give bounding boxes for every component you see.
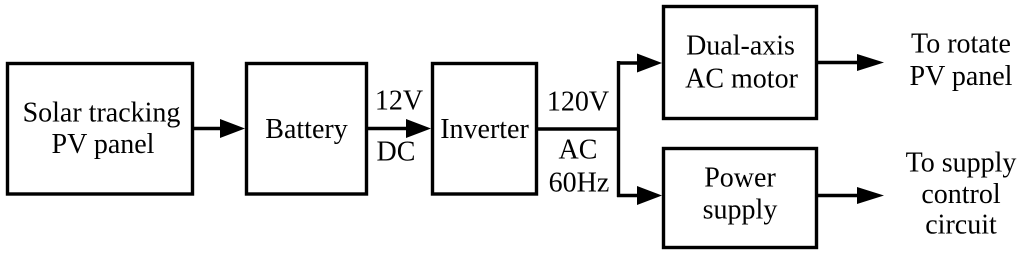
svg-text:Battery: Battery (265, 114, 347, 145)
label: To supply control circuit (906, 148, 1017, 241)
wire: PV panel to Battery arrow shaft (193, 127, 224, 130)
wire: power supply output arrow shaft (817, 194, 860, 197)
arrowhead: into Dual-axis AC motor (637, 54, 662, 73)
wire: motor output arrow shaft (817, 61, 860, 64)
label: Power supply (703, 163, 778, 226)
arrowhead: into Power supply (637, 186, 662, 205)
wire: Battery to Inverter arrow shaft (367, 127, 410, 130)
svg-text:60Hz: 60Hz (549, 168, 610, 199)
svg-text:Dual-axis: Dual-axis (686, 31, 795, 62)
svg-text:Solar tracking: Solar tracking (23, 98, 181, 129)
block: Solar tracking PV panel (8, 64, 193, 195)
svg-text:control: control (921, 179, 1001, 210)
svg-text:12V: 12V (375, 86, 423, 117)
block: Dual-axis AC motor (664, 7, 817, 119)
arrowhead: into Battery (220, 119, 245, 138)
arrowhead: to supply control circuit (857, 187, 884, 204)
label: Solar tracking PV panel (23, 98, 181, 161)
svg-text:Inverter: Inverter (440, 114, 529, 145)
svg-text:AC: AC (559, 135, 598, 166)
svg-text:AC motor: AC motor (685, 64, 798, 95)
block: Inverter (433, 64, 537, 195)
label: Dual-axis AC motor (685, 31, 798, 95)
label: To rotate PV panel (910, 29, 1013, 93)
wire: bottom branch shaft (617, 194, 640, 197)
wire: top branch shaft (617, 61, 640, 64)
svg-text:circuit: circuit (925, 210, 997, 241)
svg-text:To rotate: To rotate (911, 29, 1011, 60)
block: Power supply (664, 149, 817, 248)
block: Battery (247, 64, 367, 195)
svg-text:DC: DC (377, 137, 416, 168)
wire: Inverter to junction (536, 127, 620, 130)
svg-text:PV panel: PV panel (52, 129, 155, 160)
wire: junction vertical trunk (617, 61, 620, 197)
svg-text:supply: supply (703, 195, 778, 226)
svg-text:PV panel: PV panel (910, 61, 1013, 92)
arrowhead: to rotate PV panel (857, 54, 884, 71)
svg-text:120V: 120V (547, 87, 609, 118)
arrowhead: into Inverter (406, 119, 431, 138)
svg-text:To supply: To supply (906, 148, 1017, 179)
svg-text:Power: Power (704, 163, 776, 194)
